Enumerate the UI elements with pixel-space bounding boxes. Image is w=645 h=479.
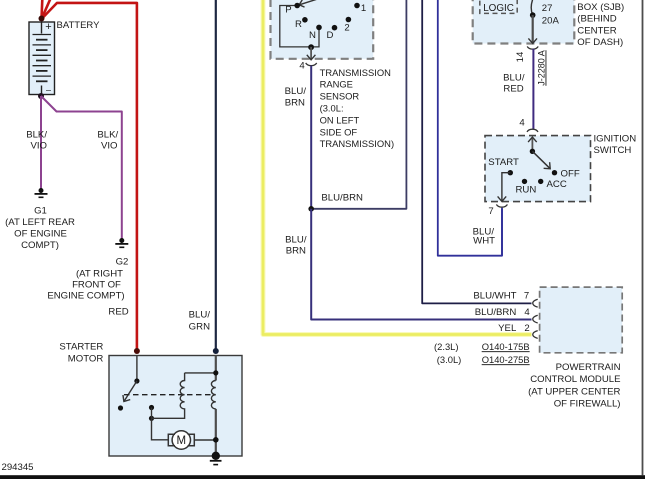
svg-text:BLU/WHT: BLU/WHT [473,291,516,302]
starter contact upper [149,405,154,410]
svg-text:BLU/: BLU/ [503,73,525,84]
svg-text:2: 2 [344,22,349,33]
svg-text:VIO: VIO [30,141,47,152]
wire contact to motor [152,418,169,440]
node BLU/BRN junction [308,206,314,212]
wire BLU/RED [532,49,534,130]
ignition input arrow [531,137,533,151]
ignition switch box [485,136,591,202]
svg-text:SWITCH: SWITCH [594,145,632,156]
svg-text:COMPT): COMPT) [21,240,59,251]
wire YEL [263,0,532,335]
svg-text:G2: G2 [116,257,129,268]
svg-text:CONTROL MODULE: CONTROL MODULE [530,374,620,385]
svg-text:BLU/: BLU/ [285,86,307,97]
sensor contact R [302,17,308,23]
svg-text:BOX (SJB): BOX (SJB) [577,2,624,13]
wire coil top link [185,372,216,374]
starter motor box [109,356,242,457]
svg-text:BLU/: BLU/ [285,235,307,246]
wire red battery positive feeds [42,0,137,352]
svg-text:294345: 294345 [2,462,34,473]
svg-text:GRN: GRN [189,322,210,333]
wire motor to main [194,439,216,441]
svg-text:4: 4 [299,61,305,72]
sensor contact 1 [354,3,360,9]
motor M [168,431,194,449]
svg-text:BLK/: BLK/ [26,130,47,141]
svg-text:+: + [45,21,51,33]
wire START to pin 7 [502,173,510,202]
svg-text:ENGINE COMPT): ENGINE COMPT) [47,291,124,302]
node red feed [134,348,140,354]
starter switch arm [124,381,137,402]
sensor selector path [280,6,319,47]
svg-text:N: N [309,30,316,41]
svg-text:(2.3L): (2.3L) [434,341,459,352]
svg-text:D: D [327,30,334,41]
svg-text:(3.0L:: (3.0L: [320,103,344,114]
connector arc sensor pin 4 [306,63,317,66]
label PCM name [528,362,620,410]
connector arc ignition pin 7 [496,204,507,207]
wire BLU/WHT from ignition pin 7 [501,209,503,256]
ground G1 [35,188,48,197]
starter ground [212,452,220,460]
sensor contact D [332,25,338,31]
wire BLU/GRN [215,0,217,351]
svg-text:2: 2 [524,323,529,334]
node battery positive [39,16,45,22]
right border [642,0,644,475]
svg-text:WHT: WHT [473,236,495,247]
svg-text:1: 1 [361,3,366,14]
connector arc ignition pin 4 [527,129,538,132]
svg-text:7: 7 [488,206,493,217]
sensor contact P [294,3,300,9]
svg-text:LOGIC: LOGIC [483,3,514,14]
ground G2 [115,238,128,247]
svg-text:(3.0L): (3.0L) [437,354,462,365]
svg-text:(AT RIGHT: (AT RIGHT [76,269,123,280]
svg-text:14: 14 [515,51,526,62]
node sensor output junction [308,44,314,50]
coil L2 hold-in winding [211,381,215,409]
transmission range sensor box [271,0,374,59]
ignition contact OFF [552,170,557,175]
battery B1 [29,21,55,96]
svg-text:RED: RED [503,84,523,95]
svg-text:J-2280 A: J-2280 A [537,50,547,86]
ignition pivot [530,149,535,154]
connector arc SJB pin 14 [527,46,538,49]
svg-text:BRN: BRN [285,98,305,109]
svg-text:OF FIREWALL): OF FIREWALL) [554,399,621,410]
mechanical linkage dashed [124,394,216,396]
connector arc PCM pin 7 [533,299,538,307]
smart junction box SJB [473,0,575,44]
svg-text:STARTER: STARTER [59,342,103,353]
coil L1 pull-in winding [152,373,185,418]
label SJB name [577,2,624,48]
svg-text:RUN: RUN [516,185,537,196]
node BLU/GRN feed [213,348,219,354]
svg-text:O140-175B: O140-175B [482,341,530,352]
svg-text:BLU/BRN: BLU/BRN [475,307,517,318]
fuse F27 [531,0,533,15]
svg-text:M: M [177,435,187,447]
sensor pin 4 arrow [310,47,312,60]
wire BLK/VIO to G2 [41,96,122,239]
svg-text:POWERTRAIN: POWERTRAIN [556,362,621,373]
svg-text:BATTERY: BATTERY [57,20,101,31]
svg-text:YEL: YEL [498,323,517,334]
svg-text:ACC: ACC [547,179,567,190]
ignition contact ACC [538,179,543,184]
svg-text:BRN: BRN [286,246,306,257]
wire BLU/WHT to PCM (from top) [422,0,531,303]
SJB output arrow [532,15,534,43]
svg-text:OFF: OFF [561,168,580,179]
wire BLU/BRN sensor feed (from top) [311,0,406,209]
svg-text:VIO: VIO [101,141,118,152]
svg-text:20A: 20A [542,16,560,27]
sensor contact N [316,25,322,31]
sensor contact 2 [346,17,352,23]
wire BLU/BRN to PCM [311,209,531,320]
svg-text:27: 27 [542,3,553,14]
svg-text:START: START [488,157,519,168]
svg-text:SIDE OF: SIDE OF [320,126,358,137]
svg-text:7: 7 [524,291,529,302]
sensor name text [320,67,394,149]
node battery negative [38,93,44,99]
svg-text:RED: RED [108,307,128,318]
ignition contact RUN [522,179,527,184]
powertrain control module box [540,287,623,353]
svg-text:P: P [285,5,291,16]
svg-text:ON LEFT: ON LEFT [320,114,360,125]
svg-text:(AT LEFT REAR: (AT LEFT REAR [5,217,75,228]
svg-text:4: 4 [519,118,525,129]
wire BLU/BRN from sensor [310,66,312,209]
svg-text:RANGE: RANGE [320,79,353,90]
starter main gray wire [215,356,217,381]
starter contact lower [149,416,154,421]
connector arc PCM pin 4 [533,315,538,323]
node motor junction [213,437,219,443]
connector arc PCM pin 2 [533,331,538,339]
node coil top [213,370,218,375]
svg-text:FRONT OF: FRONT OF [72,280,121,291]
svg-text:4: 4 [524,307,530,318]
svg-text:(BEHIND: (BEHIND [577,14,617,25]
svg-text:BLK/: BLK/ [97,130,118,141]
bottom bar [0,475,645,479]
svg-text:G1: G1 [34,206,47,217]
starter switch feed [136,356,138,382]
svg-text:O140-275B: O140-275B [482,354,530,365]
svg-text:OF ENGINE: OF ENGINE [14,229,67,240]
svg-text:BLU/: BLU/ [189,310,211,321]
ignition contact START [508,170,513,175]
svg-text:IGNITION: IGNITION [594,134,637,145]
svg-text:SENSOR: SENSOR [320,91,360,102]
svg-text:CENTER: CENTER [577,25,617,36]
svg-text:(AT UPPER CENTER: (AT UPPER CENTER [528,386,620,397]
sensor selector arm [299,0,328,5]
svg-text:BLU/BRN: BLU/BRN [321,192,363,203]
wire BLK/VIO to G1 [40,96,42,189]
svg-text:TRANSMISSION): TRANSMISSION) [320,138,394,149]
svg-text:TRANSMISSION: TRANSMISSION [320,67,391,78]
svg-text:MOTOR: MOTOR [68,354,104,365]
logic box [480,0,517,13]
svg-text:OF DASH): OF DASH) [577,37,623,48]
starter contact left [118,405,123,410]
svg-text:R: R [295,19,302,30]
svg-text:–: – [46,85,51,95]
ignition switch arm [532,151,550,168]
wire BLU/WHT ignition leg (from top) [438,0,502,256]
